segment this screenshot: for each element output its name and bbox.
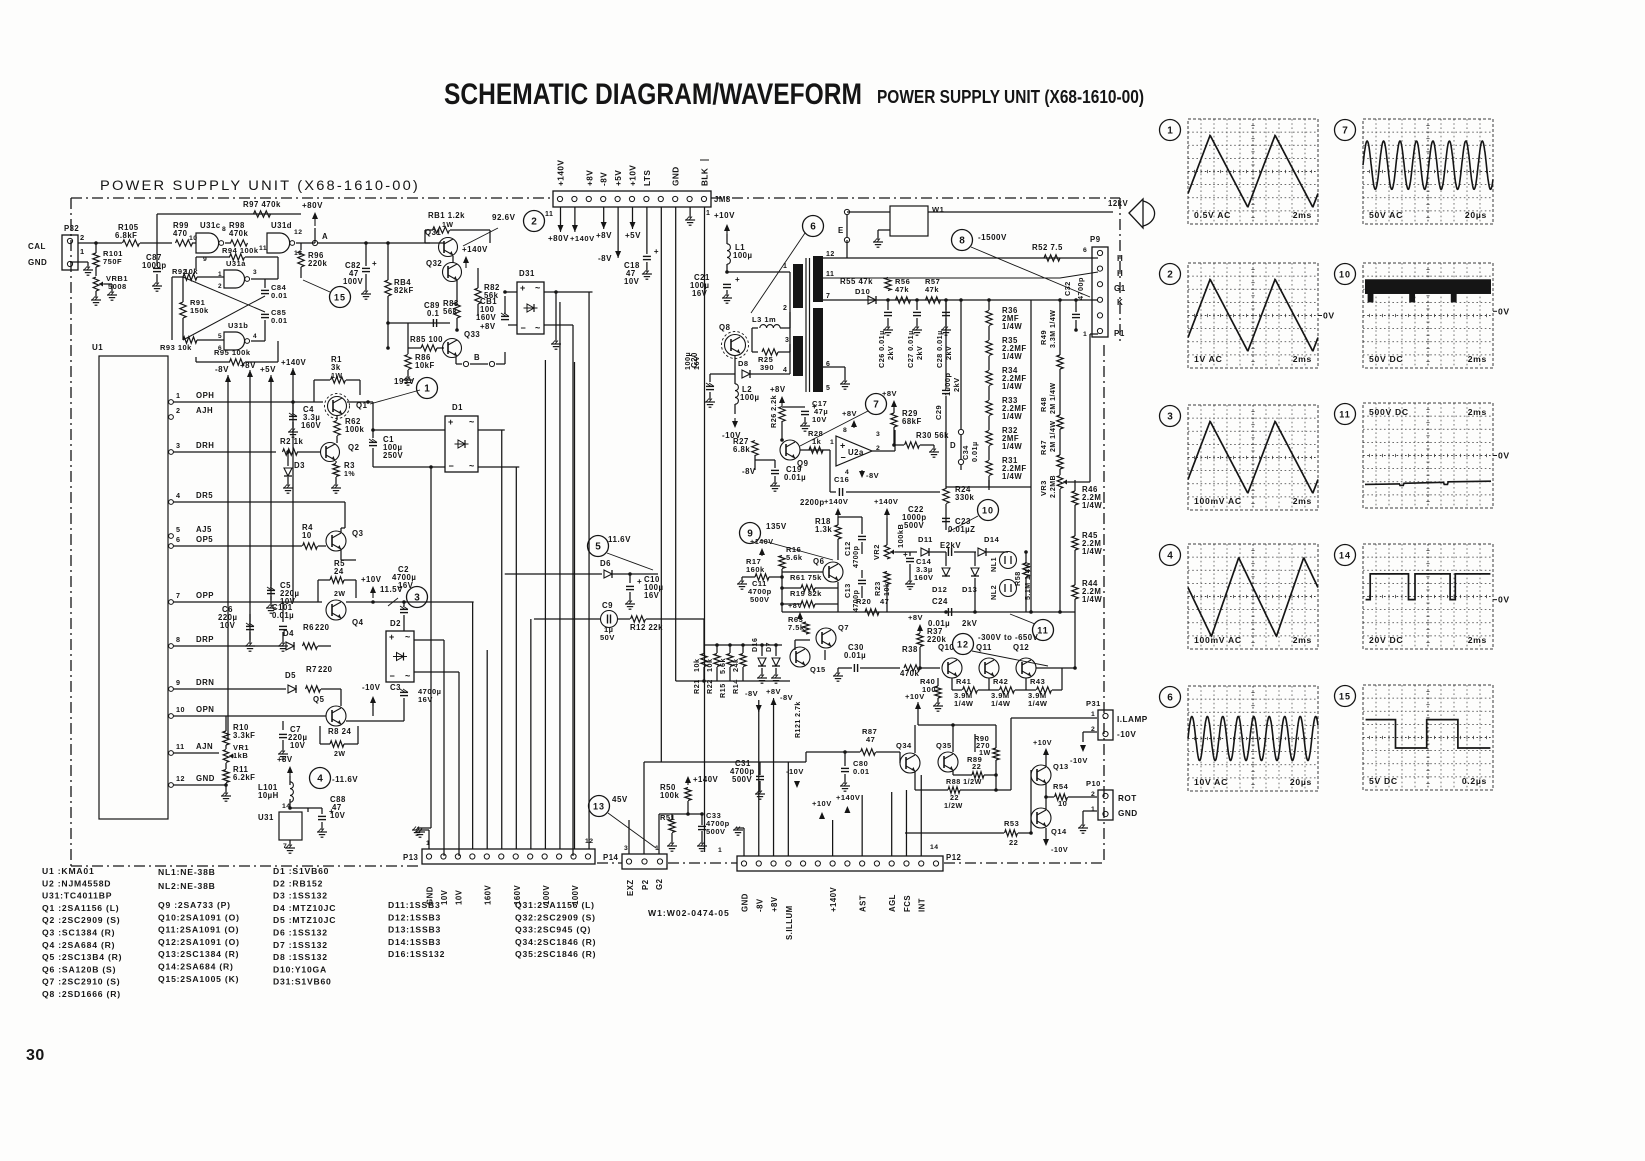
U1 pin 4 DR5	[169, 500, 174, 505]
svg-text:FCS: FCS	[903, 895, 912, 912]
svg-text:100µ: 100µ	[683, 352, 692, 370]
svg-text:D31: D31	[519, 269, 535, 278]
dash-dot unit border top-left segment	[71, 197, 553, 199]
svg-text:D12:1SSB3: D12:1SSB3	[388, 912, 441, 922]
svg-text:2ms: 2ms	[1468, 407, 1487, 417]
capacitor C27	[916, 300, 918, 310]
resistor R86	[405, 355, 411, 370]
svg-text:R54: R54	[1053, 782, 1069, 791]
U1 pin 8 DRP	[169, 644, 174, 649]
resistor R26	[779, 407, 785, 422]
svg-text:10kF: 10kF	[415, 361, 435, 370]
ground below C33	[697, 845, 707, 847]
wire P12 riser	[758, 700, 760, 856]
svg-text:+10V: +10V	[714, 211, 735, 220]
wire pin1 OPH	[173, 401, 323, 403]
svg-text:8: 8	[176, 635, 181, 644]
svg-text:H: H	[1117, 254, 1123, 263]
wire C24 row	[887, 611, 1075, 613]
svg-text:U2a: U2a	[848, 448, 864, 457]
svg-text:10k: 10k	[692, 659, 701, 673]
svg-text:~: ~	[535, 283, 540, 293]
wire pin9 DRN	[173, 688, 286, 690]
-8V label U2a	[861, 470, 863, 475]
resistor R58	[1023, 563, 1029, 577]
-10V arrow below P31	[1083, 731, 1097, 733]
svg-text:3: 3	[253, 269, 257, 276]
svg-text:24k: 24k	[731, 659, 740, 673]
svg-text:Q32: Q32	[426, 259, 442, 268]
svg-text:4700p: 4700p	[1076, 277, 1085, 300]
svg-text:11: 11	[545, 211, 553, 218]
capacitor C87	[156, 243, 158, 266]
svg-text:+140V: +140V	[570, 234, 595, 243]
dash-dot unit border right side	[1103, 345, 1105, 863]
svg-text:2M 1/4W: 2M 1/4W	[1050, 382, 1057, 414]
JM8 arrow +8V	[603, 226, 605, 229]
svg-text:250V: 250V	[383, 451, 404, 460]
svg-text:SCHEMATIC DIAGRAM/WAVEFORM: SCHEMATIC DIAGRAM/WAVEFORM	[444, 78, 862, 111]
svg-text:1: 1	[80, 247, 85, 256]
svg-text:D: D	[950, 441, 956, 450]
svg-text:+5V: +5V	[614, 170, 623, 186]
ground below C82	[361, 293, 371, 295]
svg-text:P10: P10	[1086, 779, 1101, 788]
resistor R33	[986, 401, 992, 416]
svg-text:-10V: -10V	[1117, 730, 1136, 739]
svg-text:470k: 470k	[229, 229, 249, 238]
svg-text:+8V: +8V	[480, 322, 496, 331]
dash-dot unit border bottom left	[71, 865, 422, 867]
capacitor C30	[845, 667, 852, 669]
dash-dot unit border bottom right	[944, 862, 1104, 864]
svg-text:1/4W: 1/4W	[991, 699, 1011, 708]
circled number 6	[803, 216, 824, 237]
svg-text:+5V: +5V	[625, 231, 641, 240]
svg-text:1k: 1k	[812, 437, 822, 446]
svg-text:0V: 0V	[1498, 451, 1510, 461]
svg-text:+8V: +8V	[770, 896, 779, 912]
resistor R92	[183, 274, 197, 280]
svg-text:2ms: 2ms	[1468, 354, 1487, 364]
svg-text:0.01µ: 0.01µ	[272, 611, 294, 620]
svg-text:14: 14	[930, 844, 939, 851]
svg-text:5.6k: 5.6k	[786, 553, 803, 562]
overline on BLK	[700, 159, 709, 161]
dash-dot unit border bottom mid2	[668, 862, 737, 864]
svg-text:D10:Y10GA: D10:Y10GA	[273, 964, 327, 974]
svg-text:U31:TC4011BP: U31:TC4011BP	[42, 891, 112, 901]
svg-text:0.2µs: 0.2µs	[1462, 776, 1487, 786]
svg-text:Q11: Q11	[976, 643, 992, 652]
wire Q8 emitter	[734, 356, 736, 374]
IC U31 box	[279, 812, 302, 840]
svg-text:Q7 :2SC2910 (S): Q7 :2SC2910 (S)	[42, 977, 120, 987]
ground below C18	[642, 273, 652, 275]
node A circle	[312, 240, 317, 245]
leader 11	[1010, 614, 1035, 624]
resistor R85	[421, 345, 437, 351]
U1 pin 5 AJ5	[169, 534, 174, 539]
svg-text:G2: G2	[655, 878, 664, 890]
wire Q33 emitter to B	[455, 357, 457, 364]
U1 pin 10 OPN	[169, 714, 174, 719]
svg-text:GND: GND	[28, 258, 47, 267]
wire M1 to CRT	[928, 211, 1113, 213]
waveform scope box 14	[1363, 544, 1493, 649]
potentiometer VR2	[884, 545, 890, 559]
svg-text:Q3 :SC1384 (R): Q3 :SC1384 (R)	[42, 928, 115, 938]
ground below R11	[221, 795, 231, 797]
resistor R46	[1072, 491, 1078, 505]
svg-text:Q31:2SA1156 (L): Q31:2SA1156 (L)	[515, 900, 595, 910]
svg-text:750F: 750F	[103, 257, 122, 266]
waveform number label 10	[1335, 264, 1356, 285]
capacitor C23 E2kV	[929, 551, 946, 553]
svg-text:220: 220	[315, 623, 330, 632]
connector P10	[1098, 790, 1113, 820]
waveform number label 6	[1160, 687, 1181, 708]
bridge rectifier D1	[445, 416, 478, 472]
diode D12	[945, 552, 947, 566]
diode D5	[288, 685, 296, 693]
svg-text:0V: 0V	[1498, 306, 1510, 316]
circled number 3	[407, 587, 428, 608]
svg-text:Q4 :2SA684 (R): Q4 :2SA684 (R)	[42, 940, 115, 950]
svg-text:1: 1	[424, 383, 430, 394]
wire x658 down	[660, 574, 662, 762]
resistor R95	[195, 357, 197, 362]
svg-text:2: 2	[531, 216, 537, 227]
wire E down to transformer	[846, 240, 848, 258]
resistor R98	[231, 240, 248, 246]
svg-text:+10V: +10V	[1033, 738, 1052, 747]
svg-text:Q7: Q7	[838, 623, 849, 632]
+8V arrow L101	[289, 769, 291, 776]
waveform number label 15	[1335, 686, 1356, 707]
svg-text:470: 470	[173, 229, 188, 238]
svg-text:2ms: 2ms	[1293, 354, 1312, 364]
capacitor C28	[945, 300, 947, 310]
svg-text:20µs: 20µs	[1465, 210, 1487, 220]
op-amp U2a	[836, 436, 872, 466]
wire D31 ~ bottom right	[544, 324, 573, 326]
transistor Q34	[900, 753, 920, 773]
transistor Q2	[321, 443, 340, 462]
+10V arrow Q13	[1045, 751, 1047, 755]
waveform scope box 7	[1363, 119, 1493, 224]
svg-text:0V: 0V	[1323, 311, 1335, 321]
svg-text:5.6k: 5.6k	[718, 658, 727, 674]
svg-text:-8V: -8V	[745, 689, 758, 698]
svg-text:6.2kF: 6.2kF	[233, 773, 255, 782]
svg-text:D16: D16	[752, 638, 759, 652]
svg-text:−: −	[841, 453, 846, 463]
svg-text:C34: C34	[961, 445, 970, 460]
svg-text:16V: 16V	[398, 581, 414, 590]
svg-text:R88 1/2W: R88 1/2W	[946, 777, 982, 786]
wire D31 +	[505, 291, 517, 293]
leader 12	[972, 651, 1048, 666]
ground below C6	[245, 645, 255, 647]
svg-text:+: +	[372, 259, 377, 268]
resistor R4	[303, 543, 318, 549]
svg-text:12: 12	[294, 229, 303, 236]
svg-text:R12 22k: R12 22k	[630, 623, 663, 632]
supply bus +5V	[270, 375, 272, 378]
circled number 10	[978, 500, 999, 521]
svg-text:Q12: Q12	[1013, 643, 1029, 652]
ground below C14	[909, 576, 911, 582]
+8V arrow P12	[773, 698, 775, 701]
U1 pin 9 DRN	[169, 687, 174, 692]
capacitor C81	[501, 315, 509, 317]
wire R84 rail	[387, 243, 389, 280]
leader 11.5V	[388, 598, 398, 606]
wire A to Q31 area	[318, 242, 430, 244]
resistor R3	[335, 461, 337, 463]
svg-text:160V: 160V	[476, 313, 497, 322]
wire Q12 out	[1036, 667, 1075, 669]
svg-text:GND: GND	[196, 774, 215, 783]
svg-text:Q14: Q14	[1051, 827, 1067, 836]
transformer T1 winding bar right lower	[813, 308, 823, 392]
wire transformer pin6 tail	[823, 366, 845, 368]
svg-text:D11:1SSB3: D11:1SSB3	[388, 900, 441, 910]
resistor R51	[669, 820, 675, 833]
svg-text:Q15:2SA1005 (K): Q15:2SA1005 (K)	[158, 974, 239, 984]
svg-text:R94 100k: R94 100k	[222, 246, 259, 255]
leader 10	[948, 516, 978, 532]
transformer T1 winding bar left lower	[793, 336, 803, 376]
svg-text:0.01: 0.01	[853, 767, 870, 776]
circled number 5	[588, 536, 609, 557]
svg-text:1/4W: 1/4W	[1002, 352, 1022, 361]
svg-text:R26 2.2k: R26 2.2k	[769, 395, 778, 428]
svg-text:6: 6	[176, 535, 181, 544]
svg-text:P1: P1	[1114, 329, 1125, 338]
leader 9	[760, 540, 833, 560]
wire Q15 collector	[794, 640, 796, 650]
svg-text:4: 4	[253, 333, 257, 340]
svg-text:2ms: 2ms	[1293, 210, 1312, 220]
svg-text:CAL: CAL	[28, 242, 46, 251]
resistor R6	[303, 643, 318, 649]
svg-text:U31c: U31c	[200, 221, 221, 230]
NAND gate U31a	[224, 270, 245, 288]
svg-text:2ms: 2ms	[1468, 635, 1487, 645]
resistor R44	[1072, 585, 1078, 599]
svg-text:1/4W: 1/4W	[1082, 595, 1102, 604]
-8V arrow P12	[758, 709, 760, 712]
diode D16	[758, 658, 766, 666]
U1 pin 7 OPP	[169, 600, 174, 605]
svg-text:2: 2	[176, 406, 181, 415]
svg-text:POWER SUPPLY UNIT (X68-1610-00: POWER SUPPLY UNIT (X68-1610-00)	[100, 178, 420, 193]
svg-text:D14: D14	[984, 535, 1000, 544]
wire	[300, 267, 302, 278]
svg-text:R21: R21	[692, 679, 701, 694]
waveform number label 2	[1160, 264, 1181, 285]
resistor R101	[93, 253, 99, 267]
JM8 arrow -8V	[617, 255, 619, 258]
svg-text:10V: 10V	[455, 889, 464, 905]
svg-text:6: 6	[1083, 247, 1087, 254]
svg-text:4700p: 4700p	[853, 546, 860, 568]
capacitor C32	[1075, 300, 1077, 312]
capacitor C20	[706, 385, 714, 387]
svg-text:193V: 193V	[394, 377, 415, 386]
wire pin10 OPN	[173, 715, 326, 717]
svg-text:3: 3	[176, 441, 181, 450]
+10V arrow Q34 rail	[917, 702, 919, 705]
wire D1 + left	[373, 429, 445, 431]
transistor Q5	[326, 706, 346, 726]
waveform scope box 6	[1188, 686, 1318, 791]
wire D2 out right top	[414, 639, 444, 641]
svg-text:12: 12	[176, 774, 185, 783]
svg-text:Q10:2SA1091 (O): Q10:2SA1091 (O)	[158, 912, 240, 922]
svg-text:VR2: VR2	[872, 544, 881, 560]
transistor Q10	[942, 658, 962, 678]
wire x675 across	[676, 680, 704, 682]
svg-text:1/4W: 1/4W	[1028, 699, 1048, 708]
svg-text:3k: 3k	[331, 363, 341, 372]
ground	[417, 827, 431, 829]
svg-text:Q8 :2SD1666 (R): Q8 :2SD1666 (R)	[42, 989, 121, 999]
svg-text:15: 15	[334, 292, 346, 302]
svg-text:16V: 16V	[692, 356, 701, 370]
JM8 pin2 arrow +140V	[574, 229, 576, 232]
svg-text:100µ: 100µ	[740, 393, 760, 402]
ground below D3	[283, 487, 293, 489]
circled number 15	[330, 287, 351, 308]
svg-text:+10V: +10V	[629, 165, 638, 186]
svg-text:R6: R6	[303, 623, 314, 632]
svg-text:R30 56k: R30 56k	[916, 431, 949, 440]
wire pin8 DRP	[173, 645, 284, 647]
svg-text:5: 5	[176, 525, 181, 534]
svg-text:4: 4	[317, 773, 323, 784]
svg-text:R20: R20	[856, 597, 871, 606]
capacitor C14	[906, 557, 914, 559]
diode D7	[772, 658, 780, 666]
wire	[197, 276, 224, 278]
wire P32 pin1 to ground	[70, 261, 88, 263]
svg-text:Q35:2SC1846 (R): Q35:2SC1846 (R)	[515, 949, 596, 959]
svg-text:D13:1SSB3: D13:1SSB3	[388, 925, 441, 935]
svg-text:22: 22	[1009, 838, 1018, 847]
svg-text:E2kV: E2kV	[940, 541, 961, 550]
wire Q3 collector	[340, 528, 342, 532]
svg-text:10: 10	[1339, 269, 1351, 279]
resistor R7	[306, 686, 321, 692]
svg-text:1: 1	[718, 847, 722, 854]
svg-text:+: +	[520, 283, 525, 293]
+140V arrow	[465, 259, 467, 268]
svg-text:+8V: +8V	[240, 361, 256, 370]
svg-text:20µs: 20µs	[1290, 777, 1312, 787]
connector P14	[622, 854, 667, 869]
capacitor C19	[774, 460, 776, 468]
svg-text:H: H	[1117, 269, 1123, 278]
svg-text:500V: 500V	[750, 595, 770, 604]
svg-text:3: 3	[414, 592, 420, 603]
svg-text:U31b: U31b	[228, 321, 248, 330]
svg-text:Q8: Q8	[719, 323, 731, 332]
svg-text:POWER SUPPLY UNIT (X68-1610-00: POWER SUPPLY UNIT (X68-1610-00)	[877, 86, 1144, 107]
svg-text:-11.6V: -11.6V	[332, 775, 358, 784]
wire VR3 tap	[1068, 481, 1090, 483]
wire D2 out right bottom	[414, 671, 459, 673]
transistor Q3	[326, 531, 346, 551]
capacitor C82	[364, 241, 368, 245]
resistor R42	[1000, 687, 1015, 693]
svg-text:390: 390	[760, 363, 774, 372]
wire D31 ~ top	[544, 291, 593, 293]
svg-text:-1500V: -1500V	[978, 233, 1007, 242]
svg-text:R47: R47	[1039, 440, 1048, 455]
svg-text:-8V: -8V	[742, 467, 756, 476]
circled number 1	[417, 378, 438, 399]
svg-text:16V: 16V	[644, 591, 660, 600]
wire transformer pin12 to P9 H	[823, 257, 1098, 259]
leader 8 to K	[971, 247, 1090, 297]
svg-text:11: 11	[1339, 409, 1351, 419]
svg-text:Q34: Q34	[896, 741, 912, 750]
svg-text:50V: 50V	[600, 633, 615, 642]
svg-text:−: −	[521, 323, 526, 333]
U1 pin 1 OPH	[169, 400, 174, 405]
resistor R12	[631, 616, 646, 622]
wire U2a output	[872, 450, 895, 452]
waveform scope box 3	[1188, 405, 1318, 510]
capacitor C10	[629, 574, 631, 583]
diode D4	[286, 642, 294, 650]
svg-text:~: ~	[405, 632, 410, 642]
svg-text:10k: 10k	[184, 267, 198, 276]
svg-text:EXZ: EXZ	[626, 879, 635, 896]
ground below C20	[705, 401, 715, 403]
svg-text:C29: C29	[934, 405, 943, 420]
svg-text:C27 0.01µ: C27 0.01µ	[906, 330, 915, 368]
wire pin3 DRH	[173, 451, 276, 453]
wire	[336, 436, 338, 443]
connector JM8	[553, 191, 711, 207]
svg-text:D8: D8	[738, 359, 749, 368]
svg-text:R19 82k: R19 82k	[790, 589, 822, 598]
transistor Q15 stage	[790, 647, 810, 667]
ground P10 pin1	[1083, 810, 1097, 812]
capacitor C26	[887, 300, 889, 310]
svg-text:Q33:2SC945 (Q): Q33:2SC945 (Q)	[515, 925, 591, 935]
node E	[844, 209, 849, 214]
svg-text:E: E	[838, 226, 844, 235]
svg-text:~: ~	[405, 671, 410, 681]
svg-text:10V: 10V	[330, 811, 346, 820]
svg-text:R48: R48	[1039, 397, 1048, 412]
+140V arrow left	[761, 551, 763, 556]
svg-text:8: 8	[959, 235, 965, 246]
svg-text:-10V: -10V	[786, 767, 804, 776]
svg-text:R93 10k: R93 10k	[160, 343, 192, 352]
svg-text:AJH: AJH	[196, 406, 213, 415]
capacitor C24	[947, 608, 949, 616]
U1 pin 2 AJH	[169, 415, 174, 420]
svg-text:+140V: +140V	[829, 886, 838, 912]
potentiometer VRB1	[93, 277, 99, 291]
svg-text:~: ~	[469, 461, 474, 471]
